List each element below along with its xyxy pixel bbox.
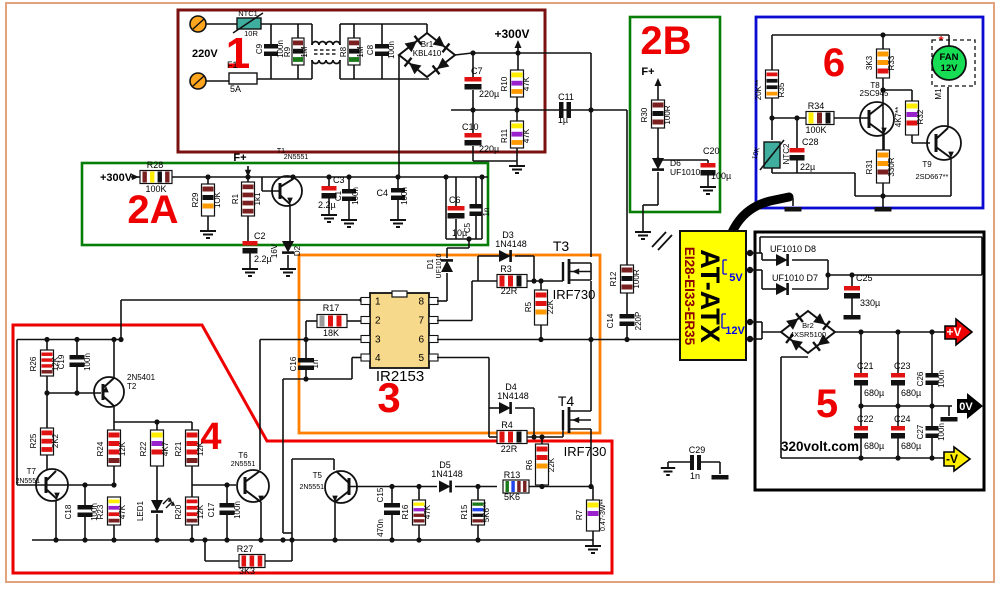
svg-text:220µ: 220µ bbox=[479, 89, 499, 99]
svg-text:Br1: Br1 bbox=[421, 40, 434, 49]
svg-text:R22: R22 bbox=[139, 441, 148, 456]
svg-text:100n: 100n bbox=[351, 187, 360, 205]
svg-text:8: 8 bbox=[418, 297, 424, 308]
svg-text:R31: R31 bbox=[865, 159, 874, 174]
svg-text:C16: C16 bbox=[289, 356, 298, 371]
svg-text:R35: R35 bbox=[777, 82, 786, 97]
svg-text:2N5551: 2N5551 bbox=[299, 484, 324, 491]
svg-text:2SD667**: 2SD667** bbox=[916, 172, 949, 181]
svg-text:220V: 220V bbox=[192, 48, 218, 60]
svg-text:C24: C24 bbox=[894, 414, 911, 424]
svg-text:1N4148: 1N4148 bbox=[497, 391, 529, 401]
svg-text:C25: C25 bbox=[856, 273, 873, 283]
svg-text:2N5551: 2N5551 bbox=[284, 154, 309, 161]
svg-text:12V: 12V bbox=[725, 325, 745, 337]
svg-text:22R: 22R bbox=[501, 286, 518, 296]
svg-text:R25: R25 bbox=[29, 433, 38, 448]
svg-text:22K: 22K bbox=[547, 457, 556, 472]
svg-text:T9: T9 bbox=[922, 160, 932, 169]
svg-text:C6: C6 bbox=[449, 195, 461, 205]
svg-text:0.47-3W**: 0.47-3W** bbox=[600, 499, 607, 531]
svg-text:R29: R29 bbox=[191, 192, 200, 207]
svg-text:C4: C4 bbox=[376, 188, 388, 198]
svg-text:D1: D1 bbox=[426, 258, 435, 269]
svg-text:C8: C8 bbox=[366, 44, 375, 55]
svg-text:R6: R6 bbox=[525, 459, 534, 470]
svg-text:C7: C7 bbox=[471, 66, 483, 76]
svg-text:1µ: 1µ bbox=[558, 115, 568, 125]
svg-text:2N5401: 2N5401 bbox=[127, 373, 156, 382]
svg-text:R15: R15 bbox=[460, 504, 469, 519]
svg-text:FAN: FAN bbox=[940, 52, 959, 63]
svg-text:C21: C21 bbox=[857, 361, 874, 371]
svg-text:+300V: +300V bbox=[494, 27, 529, 41]
svg-text:3K3: 3K3 bbox=[865, 55, 874, 70]
svg-text:UF1010 D8: UF1010 D8 bbox=[770, 244, 816, 254]
svg-text:2B: 2B bbox=[640, 19, 691, 63]
svg-text:2: 2 bbox=[375, 316, 381, 327]
svg-text:C27: C27 bbox=[916, 424, 925, 439]
svg-text:C22: C22 bbox=[857, 414, 874, 424]
svg-text:EI28-EI33-ER35: EI28-EI33-ER35 bbox=[682, 247, 697, 346]
svg-text:100n: 100n bbox=[937, 423, 946, 441]
svg-text:100n: 100n bbox=[400, 187, 409, 205]
svg-text:R32: R32 bbox=[916, 109, 925, 124]
svg-text:12K: 12K bbox=[196, 504, 205, 519]
svg-text:LED1: LED1 bbox=[136, 500, 145, 521]
svg-text:2N5551: 2N5551 bbox=[15, 478, 40, 485]
svg-text:680µ: 680µ bbox=[901, 388, 921, 398]
svg-text:C20: C20 bbox=[703, 146, 720, 156]
svg-text:100µ: 100µ bbox=[711, 171, 731, 181]
svg-text:R7: R7 bbox=[575, 509, 584, 520]
svg-text:R13: R13 bbox=[504, 470, 521, 480]
svg-text:T5: T5 bbox=[313, 471, 323, 480]
svg-text:NTC1: NTC1 bbox=[238, 9, 258, 18]
svg-text:680µ: 680µ bbox=[901, 441, 921, 451]
svg-text:F+: F+ bbox=[233, 152, 246, 164]
svg-text:C2: C2 bbox=[254, 231, 266, 241]
svg-text:C18: C18 bbox=[64, 504, 73, 519]
svg-text:100n: 100n bbox=[937, 370, 946, 388]
svg-text:D2: D2 bbox=[293, 245, 302, 256]
svg-text:7: 7 bbox=[418, 316, 424, 327]
svg-text:2SC945: 2SC945 bbox=[860, 89, 889, 98]
svg-text:47K: 47K bbox=[522, 128, 531, 143]
svg-text:220µ: 220µ bbox=[479, 144, 499, 154]
svg-text:C19: C19 bbox=[57, 354, 66, 369]
svg-text:C1: C1 bbox=[334, 190, 343, 201]
svg-text:R30: R30 bbox=[640, 107, 649, 122]
svg-text:6: 6 bbox=[823, 41, 845, 85]
svg-text:5: 5 bbox=[816, 382, 838, 426]
svg-text:1N4148: 1N4148 bbox=[431, 469, 463, 479]
svg-text:C23: C23 bbox=[894, 361, 911, 371]
svg-text:IRF730: IRF730 bbox=[564, 444, 607, 459]
svg-text:R10: R10 bbox=[500, 76, 509, 91]
svg-text:1N4148: 1N4148 bbox=[495, 239, 527, 249]
svg-text:1k1: 1k1 bbox=[253, 192, 262, 205]
svg-text:F1: F1 bbox=[227, 60, 238, 70]
svg-text:6: 6 bbox=[418, 335, 424, 346]
svg-text:T7: T7 bbox=[27, 467, 37, 476]
svg-text:12K: 12K bbox=[196, 441, 205, 456]
svg-text:IR2153: IR2153 bbox=[376, 368, 424, 385]
svg-text:100n: 100n bbox=[83, 353, 92, 371]
svg-text:5K6: 5K6 bbox=[504, 492, 520, 502]
svg-text:220P: 220P bbox=[634, 312, 643, 331]
svg-text:C11: C11 bbox=[558, 92, 574, 102]
svg-text:R3: R3 bbox=[500, 264, 512, 274]
svg-text:330µ: 330µ bbox=[860, 298, 880, 308]
svg-text:T4: T4 bbox=[558, 393, 575, 409]
svg-text:100K: 100K bbox=[145, 184, 166, 194]
svg-text:22R: 22R bbox=[501, 444, 518, 454]
svg-text:20K**: 20K** bbox=[754, 80, 763, 100]
svg-text:0V: 0V bbox=[959, 401, 973, 413]
svg-text:2N5551: 2N5551 bbox=[231, 461, 256, 468]
svg-text:C3: C3 bbox=[333, 175, 345, 185]
svg-text:C14: C14 bbox=[606, 313, 615, 328]
svg-text:R12: R12 bbox=[609, 271, 618, 286]
svg-text:NTC2: NTC2 bbox=[782, 143, 791, 164]
svg-text:16V: 16V bbox=[270, 243, 279, 258]
svg-text:1: 1 bbox=[375, 297, 381, 308]
svg-text:C10: C10 bbox=[462, 122, 479, 132]
svg-text:100R: 100R bbox=[663, 105, 672, 124]
svg-text:R20: R20 bbox=[174, 504, 183, 519]
svg-text:3K3: 3K3 bbox=[239, 566, 255, 576]
svg-text:R33: R33 bbox=[887, 55, 896, 70]
svg-text:R4: R4 bbox=[501, 420, 513, 430]
svg-text:UF1010 D7: UF1010 D7 bbox=[772, 273, 818, 283]
svg-text:T6: T6 bbox=[238, 451, 248, 460]
svg-text:+V: +V bbox=[946, 325, 961, 339]
svg-text:470n: 470n bbox=[376, 519, 385, 537]
svg-text:R21: R21 bbox=[174, 441, 183, 456]
svg-text:R8: R8 bbox=[339, 46, 348, 57]
svg-text:2A: 2A bbox=[127, 188, 178, 232]
svg-text:1OK: 1OK bbox=[213, 191, 222, 208]
svg-text:680µ: 680µ bbox=[864, 388, 884, 398]
svg-text:M1: M1 bbox=[934, 88, 943, 100]
svg-text:R11: R11 bbox=[500, 128, 509, 143]
svg-text:18K: 18K bbox=[323, 328, 339, 338]
svg-text:C17: C17 bbox=[207, 502, 216, 517]
svg-text:UF1010: UF1010 bbox=[670, 167, 701, 177]
svg-text:47K: 47K bbox=[423, 504, 432, 519]
svg-text:IRF730: IRF730 bbox=[553, 287, 596, 302]
svg-text:R17: R17 bbox=[323, 303, 340, 313]
svg-text:C5: C5 bbox=[463, 222, 472, 233]
svg-text:AT-ATX: AT-ATX bbox=[695, 249, 725, 343]
svg-text:1M: 1M bbox=[300, 46, 309, 57]
svg-text:+300V: +300V bbox=[100, 172, 133, 184]
svg-text:3: 3 bbox=[375, 335, 381, 346]
svg-text:12K: 12K bbox=[118, 441, 127, 456]
svg-text:100n: 100n bbox=[233, 501, 242, 519]
svg-text:5K6**: 5K6** bbox=[482, 502, 491, 522]
svg-text:C28: C28 bbox=[802, 137, 819, 147]
svg-text:R27: R27 bbox=[237, 544, 254, 554]
svg-text:Br2: Br2 bbox=[802, 321, 814, 330]
svg-text:C26: C26 bbox=[916, 371, 925, 386]
svg-text:R1: R1 bbox=[231, 193, 240, 204]
svg-text:5: 5 bbox=[418, 353, 424, 364]
svg-text:1n: 1n bbox=[482, 208, 491, 217]
svg-text:R34: R34 bbox=[808, 101, 825, 111]
svg-text:47K: 47K bbox=[522, 76, 531, 91]
svg-text:100n: 100n bbox=[387, 41, 396, 59]
svg-text:R28: R28 bbox=[147, 160, 164, 170]
svg-text:4K7**: 4K7** bbox=[894, 107, 903, 127]
svg-text:320volt.com: 320volt.com bbox=[781, 439, 859, 454]
svg-text:4K7: 4K7 bbox=[161, 441, 170, 456]
svg-text:1M: 1M bbox=[356, 46, 365, 57]
svg-text:2K2: 2K2 bbox=[51, 433, 60, 448]
svg-text:330R: 330R bbox=[887, 157, 896, 176]
svg-text:10R: 10R bbox=[244, 29, 258, 38]
svg-text:T3: T3 bbox=[553, 238, 570, 254]
svg-text:1n: 1n bbox=[690, 471, 700, 481]
svg-text:C9: C9 bbox=[255, 43, 264, 54]
svg-text:680µ: 680µ bbox=[864, 441, 884, 451]
svg-text:4XSR5100: 4XSR5100 bbox=[790, 330, 826, 339]
svg-text:47K: 47K bbox=[118, 504, 127, 519]
svg-text:4: 4 bbox=[375, 353, 381, 364]
svg-text:UF1010: UF1010 bbox=[436, 253, 443, 278]
svg-text:100R: 100R bbox=[632, 269, 641, 288]
svg-text:5A: 5A bbox=[230, 84, 241, 94]
svg-text:R24: R24 bbox=[96, 441, 105, 456]
svg-text:1n: 1n bbox=[311, 360, 320, 369]
svg-text:100K: 100K bbox=[805, 125, 826, 135]
svg-text:C29: C29 bbox=[689, 445, 706, 455]
svg-text:22µ: 22µ bbox=[800, 162, 815, 172]
svg-text:R5: R5 bbox=[524, 301, 533, 312]
svg-text:R9: R9 bbox=[283, 46, 292, 57]
svg-text:12V: 12V bbox=[941, 63, 959, 74]
svg-text:R16: R16 bbox=[401, 504, 410, 519]
svg-text:-V: -V bbox=[946, 452, 958, 466]
svg-text:5V: 5V bbox=[729, 272, 743, 284]
svg-text:C15: C15 bbox=[376, 487, 385, 502]
svg-text:R23: R23 bbox=[96, 504, 105, 519]
svg-text:F+: F+ bbox=[641, 66, 654, 78]
svg-text:R26: R26 bbox=[29, 356, 38, 371]
svg-text:T2: T2 bbox=[127, 382, 137, 391]
svg-text:KBL410: KBL410 bbox=[413, 49, 442, 58]
